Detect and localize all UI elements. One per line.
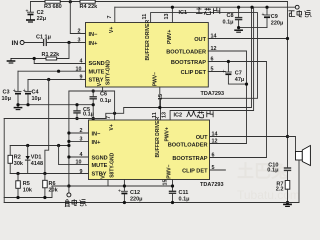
wire IC2 IN- pin2 [69, 132, 89, 134]
svg-text:VD1: VD1 [31, 155, 42, 161]
svg-text:47μ: 47μ [235, 77, 244, 83]
IC2 op-amp block U2 TDA7293 [89, 120, 210, 180]
svg-text:C7: C7 [235, 71, 242, 77]
svg-text:IN: IN [12, 40, 19, 47]
node C6 top [92, 89, 95, 92]
svg-text:BUFFER DRIVER: BUFFER DRIVER [155, 117, 161, 158]
speaker BL [296, 146, 311, 166]
svg-text:C3: C3 [3, 90, 10, 96]
svg-text:2: 2 [80, 128, 83, 134]
svg-text:+: + [262, 12, 265, 18]
wire IC1 pin11 stub and line to IC2 pin11 [151, 13, 258, 120]
svg-text:12: 12 [212, 139, 218, 145]
node C9 top [265, 6, 268, 9]
svg-text:Tubatu.com: Tubatu.com [237, 188, 300, 202]
svg-text:3: 3 [80, 136, 83, 142]
wire IC1 pin12 to IC2 pin12 bootloader link [208, 51, 246, 144]
wire IC2 pin5 stub [210, 169, 226, 171]
svg-text:BOOTLOADER: BOOTLOADER [168, 142, 208, 148]
node pin3 [67, 140, 70, 143]
capacitor C9 [262, 7, 271, 27]
node mute chain on top line [57, 144, 60, 147]
svg-text:10μ: 10μ [32, 96, 41, 102]
svg-text:PWV−: PWV− [152, 72, 158, 86]
wire bottom ground rail [4, 202, 299, 204]
node C5 bottom [75, 117, 78, 120]
capacitor C1 [44, 40, 47, 46]
wire SGND IC1 pin4 [34, 59, 85, 64]
resistor R6 [43, 174, 48, 198]
wire V+ supply rail [115, 6, 295, 8]
svg-text:9: 9 [80, 169, 83, 175]
svg-text:0.1μ: 0.1μ [267, 167, 279, 173]
svg-text:9: 9 [80, 75, 83, 81]
svg-text:10μ: 10μ [2, 96, 11, 102]
svg-text:11: 11 [142, 14, 148, 20]
svg-text:C12: C12 [130, 190, 140, 196]
svg-text:V+: V+ [109, 27, 115, 33]
svg-text:15: 15 [162, 180, 168, 186]
resistor R7 [285, 181, 290, 190]
svg-text:IC1: IC1 [179, 10, 188, 16]
resistor R5 [16, 174, 20, 198]
wire IC1 V- line [69, 91, 115, 113]
ground below C2 [27, 20, 34, 22]
svg-text:C11: C11 [179, 190, 189, 196]
node R6 bottom [43, 196, 46, 199]
node VD1 top [26, 144, 29, 147]
wire signal ground rail [18, 104, 93, 106]
svg-text:R6: R6 [49, 181, 56, 187]
label 从芯片 [187, 111, 214, 118]
node OUT1 feedback junction [286, 37, 289, 40]
svg-text:+: + [23, 88, 26, 94]
wire STBY IC1 pin9 [28, 79, 86, 81]
node IC2 pin7 junction [113, 112, 116, 115]
wire R7 to bottom rail [287, 189, 289, 202]
node C8 top [237, 6, 240, 9]
wire IC1 pin7 stub [114, 7, 116, 22]
wire IC1 pin6 to IC2 pin6 bootstrap link [208, 62, 266, 158]
capacitor C12 [118, 180, 127, 203]
diode VD1 [26, 146, 30, 174]
svg-text:C4: C4 [32, 90, 40, 96]
node R7 bottom [286, 201, 289, 204]
svg-text:V+: V+ [109, 124, 115, 130]
node C7 top [227, 60, 230, 63]
wire IC2 SGND pin4 [69, 156, 89, 158]
svg-text:6: 6 [211, 57, 214, 63]
node C6 line lower [92, 117, 95, 120]
svg-text:22μ: 22μ [37, 16, 46, 22]
wire IC1 OUT pin14 [208, 38, 287, 40]
wire feedback rail top [31, 1, 288, 3]
ground below C8 [235, 30, 242, 32]
svg-text:S8TY-GND: S8TY-GND [105, 60, 111, 85]
svg-text:+: + [222, 69, 225, 75]
svg-text:220μ: 220μ [130, 197, 143, 203]
svg-text:+: + [26, 9, 29, 15]
svg-text:V−: V− [97, 80, 103, 86]
svg-text:C2: C2 [37, 10, 44, 16]
wire R5/R6 bottom line [4, 186, 52, 198]
svg-text:TDA7293: TDA7293 [201, 91, 225, 97]
svg-text:R5: R5 [23, 181, 30, 187]
wire IC1 pin5 stub [208, 71, 225, 73]
wire R1 to ground line [11, 58, 46, 60]
node C12 bottom [123, 201, 126, 204]
wire IC2 pin7 stub [114, 113, 116, 120]
wire IC2 OUT pin14 [210, 136, 288, 138]
svg-text:S8TY-GND: S8TY-GND [109, 152, 115, 177]
svg-text:PWV+: PWV+ [167, 30, 173, 44]
node pin4 [67, 155, 70, 158]
wire IC2 IN+ pin3 [69, 140, 89, 142]
wire stby chain down to R6 [45, 80, 49, 174]
svg-text:C1 1μ: C1 1μ [36, 35, 51, 41]
label 正电源 [289, 10, 312, 17]
svg-text:IN−: IN− [89, 32, 99, 38]
svg-text:IC2: IC2 [174, 113, 183, 119]
svg-text:4: 4 [80, 59, 83, 65]
wire negative supply rail [52, 185, 173, 187]
svg-text:C9: C9 [271, 14, 278, 20]
wire feedback to IC1 pin2 [70, 2, 85, 34]
label 主芯片 [196, 8, 220, 15]
wire feedback vertical right rail [287, 2, 289, 169]
svg-text:CLIP DET: CLIP DET [182, 168, 208, 174]
wire long negative vertical [68, 91, 70, 186]
svg-text:IN−: IN− [92, 131, 102, 137]
svg-text:0.1μ: 0.1μ [222, 20, 233, 26]
node negative vertical on top line [67, 144, 70, 147]
capacitor C6 [90, 91, 96, 119]
svg-text:R4 22k: R4 22k [80, 4, 99, 10]
node pin15 junction [158, 106, 161, 109]
svg-text:V−: V− [100, 172, 106, 178]
svg-text:BUFFER DRIVER: BUFFER DRIVER [145, 20, 151, 61]
svg-text:MUTE: MUTE [92, 163, 108, 169]
svg-text:MUTE: MUTE [89, 69, 105, 75]
wire IN input line [24, 42, 43, 44]
resistor R3 [45, 0, 60, 3]
svg-text:0.1μ: 0.1μ [100, 98, 111, 104]
wire speaker return [298, 160, 300, 203]
node SGND tap [33, 57, 36, 60]
svg-text:0.1μ: 0.1μ [83, 112, 94, 118]
svg-text:PWV+: PWV+ [165, 127, 171, 141]
node stby branch [47, 78, 50, 81]
svg-text:2: 2 [78, 29, 81, 35]
svg-text:10k: 10k [23, 187, 33, 193]
svg-text:10: 10 [76, 160, 82, 166]
svg-text:7: 7 [106, 116, 112, 119]
wire V+ to IC2 pin7 route [106, 7, 252, 118]
capacitor C3 [13, 71, 21, 105]
wire C5 bottom line [4, 118, 106, 120]
terminal 负电源 negative supply [68, 186, 70, 193]
wire to speaker [288, 137, 296, 152]
capacitor C5 [74, 105, 80, 119]
svg-text:3: 3 [78, 38, 81, 44]
svg-text:15: 15 [158, 94, 164, 100]
resistor R2 [8, 146, 13, 174]
capacitor C10 [285, 168, 291, 181]
ground at R7 [284, 204, 291, 206]
svg-text:BOOTSTRAP: BOOTSTRAP [172, 156, 207, 162]
svg-text:BOOTLOADER: BOOTLOADER [166, 49, 206, 55]
wire IC2 V- stub [107, 180, 109, 187]
svg-text:CLIP DET: CLIP DET [181, 70, 207, 76]
node C12 on negative rail [123, 184, 126, 187]
svg-text:13: 13 [164, 14, 170, 20]
terminal IN [20, 41, 24, 45]
svg-text:SGND: SGND [89, 61, 105, 67]
svg-text:12: 12 [211, 46, 217, 52]
node C11 bottom [171, 201, 174, 204]
label 负电源 [65, 199, 86, 207]
wire IC1 V- stub [102, 87, 104, 91]
terminal 正电源 positive supply [295, 5, 299, 9]
svg-text:PWV−: PWV− [167, 164, 173, 178]
node negative terminal junction [67, 184, 70, 187]
svg-text:+: + [13, 88, 16, 94]
svg-text:5: 5 [211, 67, 214, 73]
svg-text:OUT: OUT [194, 37, 206, 43]
svg-text:OUT: OUT [196, 135, 208, 141]
node IN+ junction [67, 41, 70, 44]
node C11 on negative rail [171, 184, 174, 187]
svg-text:14: 14 [212, 132, 218, 138]
capacitor C8 [236, 7, 242, 27]
capacitor C2 [26, 2, 34, 20]
IC1 op-amp block U1 TDA7293 [86, 23, 209, 88]
node C3 bottom [16, 103, 19, 106]
svg-text:10: 10 [76, 66, 82, 72]
svg-text:0.1μ: 0.1μ [179, 197, 190, 203]
svg-text:+: + [118, 188, 121, 194]
wire R2/VD1 top line [10, 145, 69, 147]
node C6 bottom on rail [92, 103, 95, 106]
node C4 bottom [26, 103, 29, 106]
watermark 土巴兔 [237, 161, 300, 202]
node C8 bottom [237, 26, 240, 29]
svg-text:20k: 20k [49, 187, 59, 193]
resistor R4 [80, 0, 95, 3]
svg-text:4: 4 [80, 152, 83, 158]
wire IC2 STBY pin9 line [10, 173, 88, 175]
svg-text:C8: C8 [226, 13, 233, 19]
node pin2 [67, 131, 70, 134]
node R6 top [43, 172, 46, 175]
svg-text:IN+: IN+ [89, 41, 99, 47]
svg-text:5: 5 [212, 165, 215, 171]
svg-text:7: 7 [107, 16, 113, 19]
node pin13 on V+ rail [171, 6, 174, 9]
node R5 bottom [16, 196, 19, 199]
wire C8/C9 common [239, 27, 267, 29]
svg-text:220μ: 220μ [271, 21, 284, 27]
svg-text:R3 680: R3 680 [44, 4, 62, 10]
wire MUTE link to IC2 pin10 [59, 146, 89, 165]
capacitor C4 [23, 80, 31, 105]
ground at R1 [7, 59, 14, 64]
svg-text:C6: C6 [100, 92, 107, 98]
svg-text:IN+: IN+ [92, 140, 102, 146]
node C7 bottom on bootloader link [245, 83, 248, 86]
capacitor C7 [222, 62, 247, 85]
wire IC1 pin13 stub [171, 7, 173, 22]
wire V+ to IC2 pin13 route [170, 7, 254, 120]
capacitor C11 [170, 180, 176, 203]
node R3/R4 junction [69, 0, 72, 3]
svg-text:SGND: SGND [92, 155, 108, 161]
node C5 top [75, 103, 78, 106]
node mute branch [57, 70, 60, 73]
svg-text:30k: 30k [14, 161, 24, 167]
node speaker junction [286, 135, 289, 138]
resistor R1 [46, 57, 57, 60]
svg-text:R2: R2 [14, 155, 21, 161]
ground below C3 [14, 105, 21, 110]
svg-text:TDA7293: TDA7293 [200, 182, 224, 188]
svg-text:土巴兔: 土巴兔 [237, 161, 288, 181]
wire IC1 pin15 stub [159, 87, 161, 108]
node R5 top [16, 172, 19, 175]
wire left edge vertical [3, 119, 5, 203]
svg-text:14: 14 [211, 34, 217, 40]
svg-text:R1 22k: R1 22k [42, 52, 61, 58]
wire MUTE IC1 pin10 [18, 70, 86, 72]
svg-text:2.2: 2.2 [276, 186, 284, 192]
node V+ rail branch [250, 6, 253, 9]
svg-text:4148: 4148 [31, 161, 43, 167]
wire C1 to IC1 pin3 [47, 42, 86, 44]
svg-text:6: 6 [212, 153, 215, 159]
svg-text:BOOTSTRAP: BOOTSTRAP [171, 60, 206, 66]
svg-text:13: 13 [162, 112, 168, 118]
